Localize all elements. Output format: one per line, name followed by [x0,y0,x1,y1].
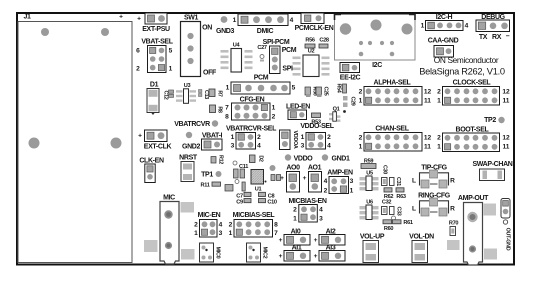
svg-text:ON: ON [202,25,212,32]
resistor R63 [396,188,406,200]
svg-text:+: + [279,237,283,244]
svg-text:11: 11 [503,144,510,151]
svg-text:L: L [412,206,416,213]
svg-text:4: 4 [257,143,261,150]
svg-text:C31: C31 [395,177,401,186]
svg-text:AO0: AO0 [286,165,300,172]
svg-text:VOL-DN: VOL-DN [409,234,434,241]
svg-text:VDDO: VDDO [294,156,314,163]
capacitor C29 [343,96,356,107]
connector AI2 [314,229,345,246]
testpoint TP1 [201,171,221,179]
svg-text:+: + [314,237,318,244]
header EE-I2C [340,63,361,82]
svg-text:1: 1 [301,134,305,141]
svg-text:2: 2 [257,134,261,141]
IC U6 [360,200,379,220]
svg-text:2: 2 [194,222,198,229]
svg-text:D1: D1 [150,82,159,89]
svg-text:ALPHA-SEL: ALPHA-SEL [374,80,412,87]
svg-text:3: 3 [350,178,354,185]
jumper RING-CFG [412,193,455,217]
svg-text:1: 1 [226,85,230,92]
J1 pad 3 [29,138,40,149]
svg-text:1: 1 [229,230,233,237]
resistor R54 [336,84,347,94]
svg-text:2: 2 [437,135,441,142]
svg-text:–: – [506,33,510,40]
resistor R56 [305,38,315,49]
testpoint VDDO [285,154,314,162]
svg-text:R: R [450,178,455,185]
svg-text:I2C-H: I2C-H [436,14,453,21]
header PCMCLK-EN [295,13,334,32]
svg-text:SPI: SPI [282,66,293,73]
header VBAT-SEL [136,39,174,73]
svg-text:R8: R8 [217,106,223,113]
connector AI1 [279,245,310,262]
testpoint VBATRCVR [174,120,218,128]
svg-text:4: 4 [219,222,223,229]
svg-text:C13: C13 [203,90,209,99]
svg-text:R63: R63 [396,194,405,200]
svg-text:SWAP-CHAN: SWAP-CHAN [472,161,512,168]
svg-text:4: 4 [319,207,323,214]
resistor R53 [311,113,320,126]
svg-text:2: 2 [437,89,441,96]
switch SW1 [181,14,218,76]
resistor R8 [210,105,223,113]
svg-text:OUT-GND: OUT-GND [505,228,511,251]
header VBAT-I [202,133,223,151]
svg-text:EE-I2C: EE-I2C [340,75,361,82]
svg-text:7: 7 [225,105,229,112]
svg-text:MICBIAS-SEL: MICBIAS-SEL [233,212,276,219]
svg-text:CLK-EN: CLK-EN [139,158,164,165]
connector MIC [160,195,179,265]
pad near MIC [144,240,158,252]
resistor R70 [449,221,458,236]
svg-text:4: 4 [290,17,294,24]
svg-text:MIC: MIC [163,195,175,202]
testpoint TP2 [484,117,505,124]
svg-text:C28: C28 [319,38,328,44]
svg-text:1: 1 [359,98,363,105]
svg-text:U2: U2 [308,49,315,55]
svg-text:2: 2 [293,207,297,214]
svg-text:AMP-EN: AMP-EN [327,170,353,177]
svg-text:MIC0: MIC0 [215,247,221,259]
svg-text:C12: C12 [163,91,169,100]
svg-text:PCMCLK-EN: PCMCLK-EN [295,25,334,32]
capacitor C13 [199,90,210,100]
svg-text:2: 2 [327,134,331,141]
header VDDOA [280,130,299,150]
header DEBUG [476,14,510,41]
svg-text:TP2: TP2 [484,117,496,124]
svg-text:2: 2 [229,222,233,229]
capacitor C28 [319,38,329,49]
svg-text:MIC2: MIC2 [262,247,268,259]
diode D1 [147,82,159,116]
header CHAN-SEL [359,126,432,152]
microphone MIC2 [247,243,268,262]
J1 pad 1 [41,28,49,36]
svg-text:U3: U3 [184,83,191,89]
svg-text:2: 2 [136,66,140,73]
resistor R12 [211,155,224,164]
testpoint GND1 [322,154,350,162]
IC I2C footprint [335,15,416,70]
pad right of AMP-OUT [484,204,497,216]
header BOOT-SEL [437,127,510,152]
svg-text:6: 6 [136,48,140,55]
svg-text:CLOCK-SEL: CLOCK-SEL [453,80,492,87]
svg-text:C29: C29 [350,97,356,106]
capacitor C30 [382,165,388,186]
svg-text:GND3: GND3 [216,28,235,35]
svg-text:MIC-EN: MIC-EN [198,212,221,219]
svg-text:R12: R12 [218,155,224,164]
svg-text:11: 11 [424,144,431,151]
svg-text:+: + [137,16,141,23]
button NRST [179,155,198,182]
header MIC-EN [194,212,223,237]
svg-text:J1: J1 [23,14,31,21]
IC U1 [251,170,267,193]
button VOL-UP [360,234,385,263]
header I2C-H [421,14,469,31]
svg-text:1: 1 [350,188,354,195]
jumper TIP-CFG [412,165,455,189]
svg-text:+: + [279,253,283,260]
svg-text:GND2: GND2 [182,144,201,151]
svg-text:12: 12 [502,89,510,96]
svg-text:5: 5 [292,85,296,92]
button VOL-DN [409,234,434,263]
connector AO1 [303,165,322,193]
svg-text:3: 3 [231,143,235,150]
svg-text:3: 3 [301,143,305,150]
resistor R60 [383,220,393,232]
svg-text:1: 1 [437,98,441,105]
pad left of R70 [447,240,460,250]
svg-text:C33: C33 [396,207,402,216]
capacitor C12 [163,90,174,100]
svg-text:SW1: SW1 [184,14,199,21]
svg-text:R70: R70 [449,221,458,227]
testpoint GND2 [182,132,201,151]
svg-text:2: 2 [324,188,328,195]
capacitor C10 [259,199,277,206]
testpoint GND3 [216,16,235,35]
svg-text:R: R [450,206,455,213]
svg-text:AO1: AO1 [308,165,322,172]
capacitor C33 [390,207,402,221]
header LED-EN [286,104,310,120]
svg-text:RX: RX [492,34,502,41]
svg-text:TP1: TP1 [201,172,213,179]
resistor R7 [209,89,223,97]
diode D3 [271,175,281,181]
svg-text:11: 11 [503,98,510,105]
header VBATRCVR-SEL [226,126,277,150]
IC U5 [360,171,379,191]
svg-text:C9: C9 [236,200,243,206]
svg-text:8: 8 [274,222,278,229]
svg-text:R7: R7 [217,90,223,97]
header DMIC [233,14,294,35]
header EXT-CLK [138,130,171,151]
header MICBIAS-SEL [229,212,279,237]
header AMP-EN [324,170,354,195]
svg-text:+: + [280,175,284,182]
capacitor C9 [236,199,251,206]
svg-text:3: 3 [319,216,323,223]
svg-text:1: 1 [437,144,441,151]
svg-text:DMIC: DMIC [257,28,274,35]
svg-text:4: 4 [327,143,331,150]
svg-text:L: L [412,178,416,185]
svg-text:VDDOA: VDDOA [292,131,298,149]
diode D2 [250,155,264,163]
svg-text:VBATRCVR: VBATRCVR [174,121,210,128]
svg-text:VDDO-SEL: VDDO-SEL [300,123,334,130]
header OUT-GND [501,199,511,251]
svg-text:SPI-PCM: SPI-PCM [263,39,290,46]
svg-text:NRST: NRST [179,155,198,162]
svg-text:C10: C10 [267,200,276,206]
svg-text:12: 12 [424,89,432,96]
header CLK-EN [139,158,164,183]
svg-text:C30: C30 [382,165,388,174]
svg-text:LED-EN: LED-EN [286,104,310,111]
via pad [270,165,276,171]
svg-text:R54: R54 [336,84,342,93]
resistor R11 [201,182,221,189]
svg-text:C32: C32 [382,200,391,206]
svg-text:1: 1 [359,144,363,151]
header SPI-PCM [254,39,297,82]
svg-text:R11: R11 [201,183,210,189]
header MICBIAS-EN [288,198,326,223]
svg-text:+: + [138,133,142,140]
header CFG-EN [225,97,276,121]
resistor R10 [225,185,233,192]
svg-text:ON Semiconductor: ON Semiconductor [434,55,499,65]
svg-text:AMP-OUT: AMP-OUT [458,195,489,202]
IC U4 [221,43,253,73]
capacitor C32 [382,200,392,215]
svg-text:EXT-PSU: EXT-PSU [142,26,170,33]
capacitor C27 [257,45,266,62]
svg-text:C25: C25 [323,87,329,96]
svg-text:BOOT-SEL: BOOT-SEL [456,127,490,134]
svg-text:2: 2 [359,135,363,142]
svg-text:D2: D2 [258,155,264,162]
transistor Q1 [329,107,346,122]
svg-text:GND1: GND1 [331,156,350,163]
svg-text:CHAN-SEL: CHAN-SEL [375,126,409,133]
svg-text:2: 2 [272,114,276,121]
svg-text:VBAT-I: VBAT-I [202,133,223,140]
resistor R62 [384,188,393,200]
svg-text:12: 12 [502,135,510,142]
svg-text:+: + [303,175,307,182]
resistor R59 [361,159,376,169]
svg-text:+: + [119,14,123,21]
svg-text:R56: R56 [305,38,314,44]
connector AO0 [280,165,300,193]
svg-text:R60: R60 [384,226,393,232]
svg-text:PCM: PCM [254,75,269,82]
svg-text:1: 1 [293,216,297,223]
connector AI3 [314,245,345,262]
microphone MIC0 [200,243,221,262]
svg-text:5: 5 [169,48,173,55]
capacitor C11 [233,161,248,178]
svg-text:1: 1 [421,23,425,30]
svg-text:4: 4 [324,178,328,185]
J1 pad 4 [111,138,122,149]
svg-text:1: 1 [272,105,276,112]
header CLOCK-SEL [437,80,510,106]
resistor R61 [393,220,413,226]
svg-text:OFF: OFF [203,70,217,77]
IC U3 [176,83,196,103]
header CAA-GND [428,38,459,58]
svg-text:U1: U1 [255,187,262,193]
pad below MIC [181,249,195,260]
header ALPHA-SEL [359,80,432,106]
svg-text:I2C: I2C [372,62,382,69]
svg-text:VBAT-SEL: VBAT-SEL [141,39,173,46]
svg-text:1: 1 [169,66,173,73]
svg-text:MICBIAS-EN: MICBIAS-EN [288,198,326,205]
svg-text:1: 1 [231,134,235,141]
svg-text:1: 1 [194,230,198,237]
svg-text:7: 7 [274,230,278,237]
resistors R50 R51 C25 C26 cluster [305,87,329,98]
pad below AMP-OUT [484,249,497,260]
svg-text:2: 2 [359,89,363,96]
header VDDO-SEL [300,123,334,150]
pad above MIC [181,202,195,213]
svg-text:VOL-UP: VOL-UP [360,234,385,241]
svg-text:1: 1 [233,17,237,24]
connector J1 [18,14,132,263]
svg-text:4: 4 [465,23,469,30]
svg-text:11: 11 [424,98,431,105]
svg-text:BelaSigna R262, V1.0: BelaSigna R262, V1.0 [419,67,505,77]
svg-text:CFG-EN: CFG-EN [240,97,265,104]
jumper SWAP-CHAN [472,161,512,181]
svg-text:+: + [314,253,318,260]
header EXT-PSU [137,13,170,33]
connector AMP-OUT [458,195,489,265]
svg-text:3: 3 [219,230,223,237]
svg-text:R61: R61 [403,220,412,226]
capacitor C31 [390,177,402,186]
svg-text:VBATRCVR-SEL: VBATRCVR-SEL [226,126,277,133]
IC U2 [293,49,330,77]
header PCM [226,82,296,94]
svg-text:8: 8 [225,114,229,121]
capacitor C8 [259,192,275,199]
svg-text:TX: TX [479,34,488,41]
capacitor C7 [236,192,251,199]
capacitor C5 [235,180,245,192]
svg-text:12: 12 [424,135,432,142]
svg-text:EXT-CLK: EXT-CLK [144,144,172,151]
J1 pad 2 [101,28,109,36]
svg-text:CAA-GND: CAA-GND [428,38,459,45]
svg-text:PCM: PCM [282,47,297,54]
connector AI0 [279,229,310,246]
